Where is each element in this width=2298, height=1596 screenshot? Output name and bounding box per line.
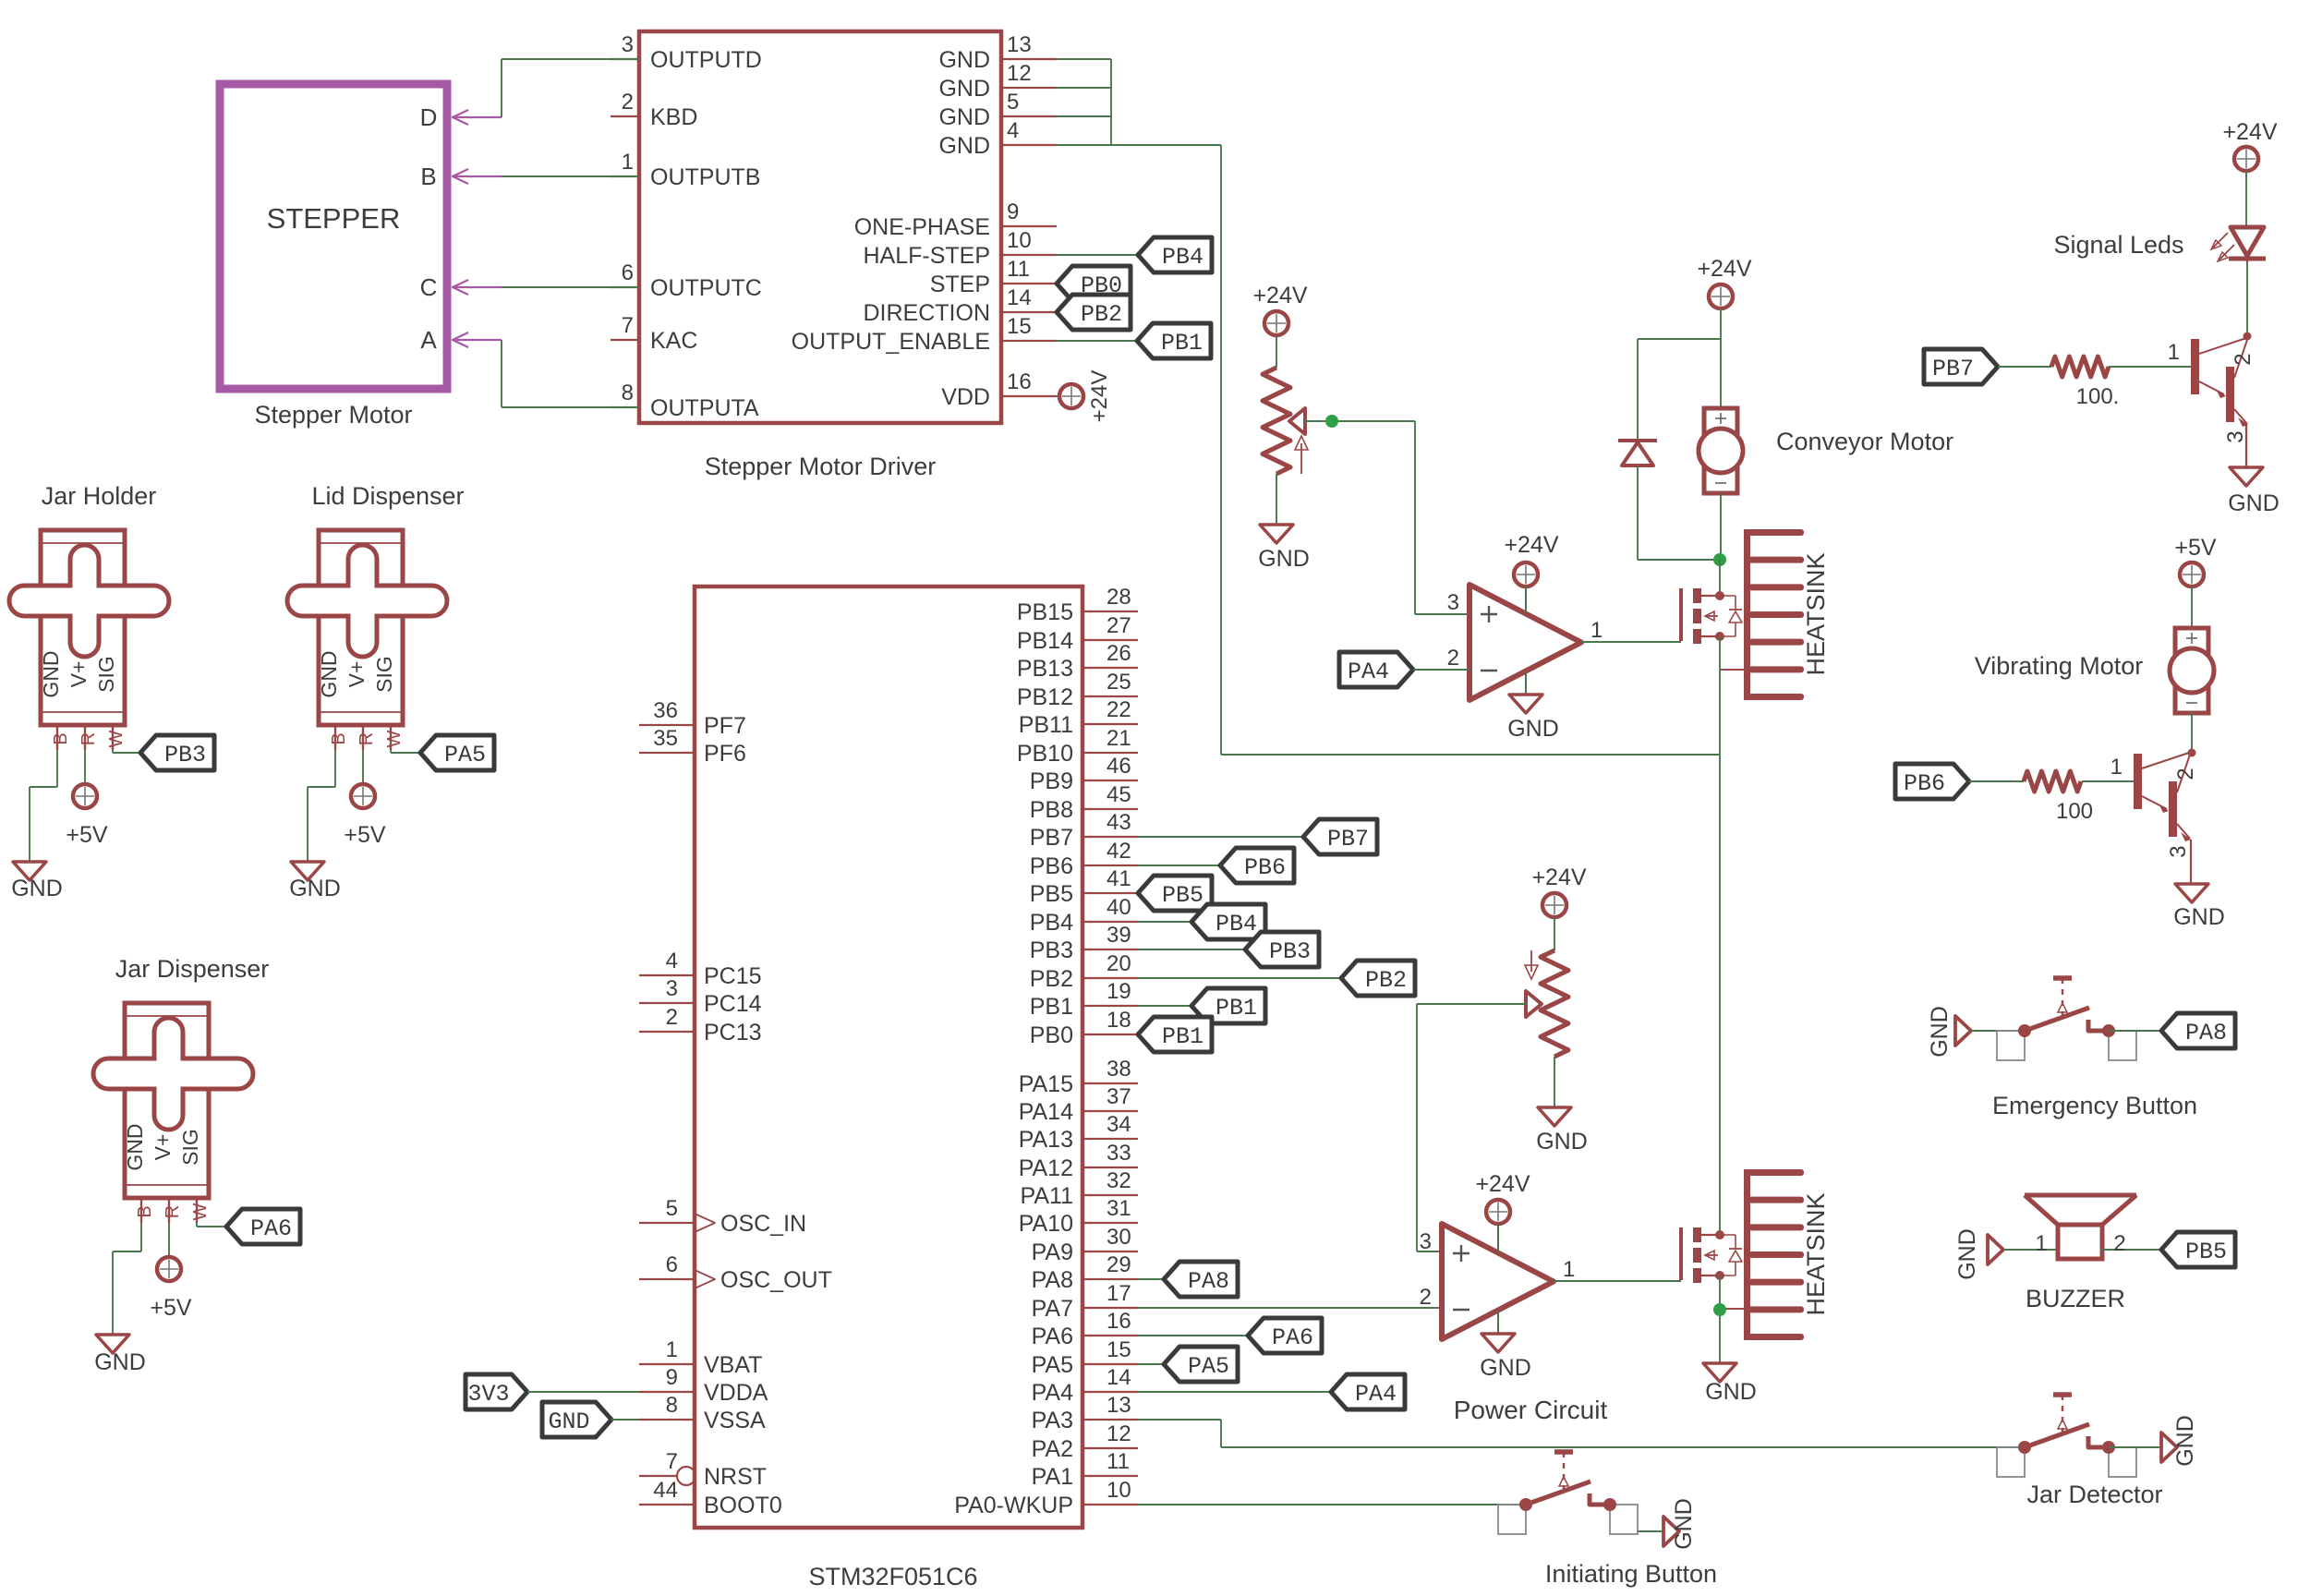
svg-text:12: 12	[1007, 61, 1032, 86]
svg-text:PB9: PB9	[1030, 768, 1073, 794]
svg-text:+5V: +5V	[66, 822, 108, 848]
svg-text:PB14: PB14	[1017, 628, 1073, 654]
svg-text:27: 27	[1107, 613, 1131, 638]
svg-text:PA4: PA4	[1032, 1380, 1073, 1406]
svg-text:+24V: +24V	[1531, 864, 1586, 890]
svg-text:PB0: PB0	[1030, 1022, 1073, 1048]
svg-text:PA6: PA6	[250, 1215, 292, 1242]
svg-text:PF6: PF6	[704, 741, 746, 767]
svg-text:16: 16	[1107, 1309, 1131, 1334]
svg-text:5: 5	[666, 1196, 678, 1221]
svg-text:42: 42	[1107, 839, 1131, 864]
svg-text:GND: GND	[2173, 904, 2225, 930]
svg-text:PA14: PA14	[1019, 1099, 1073, 1125]
svg-text:PA12: PA12	[1019, 1155, 1073, 1181]
svg-text:PB15: PB15	[1017, 599, 1073, 625]
svg-text:PB4: PB4	[1162, 244, 1203, 271]
svg-text:46: 46	[1107, 754, 1131, 779]
svg-text:PA7: PA7	[1032, 1296, 1073, 1322]
svg-text:B: B	[51, 732, 71, 744]
svg-text:38: 38	[1107, 1057, 1131, 1082]
svg-text:+24V: +24V	[1504, 532, 1558, 558]
svg-text:R: R	[357, 732, 377, 745]
svg-text:2: 2	[2173, 768, 2198, 780]
svg-text:PA4: PA4	[1348, 659, 1389, 685]
svg-text:PA8: PA8	[2185, 1020, 2227, 1046]
svg-text:PB6: PB6	[1030, 853, 1073, 879]
svg-text:Initiating Button: Initiating Button	[1545, 1560, 1717, 1588]
svg-text:PA8: PA8	[1188, 1268, 1229, 1295]
svg-text:PA5: PA5	[1188, 1353, 1229, 1380]
svg-text:+24V: +24V	[2222, 119, 2277, 145]
svg-text:GND: GND	[289, 876, 341, 901]
svg-text:PA0-WKUP: PA0-WKUP	[954, 1493, 1073, 1518]
svg-text:A: A	[420, 326, 437, 354]
svg-text:PA15: PA15	[1019, 1071, 1073, 1097]
svg-text:PA2: PA2	[1032, 1436, 1073, 1462]
svg-text:4: 4	[1007, 118, 1019, 143]
svg-text:2: 2	[1447, 646, 1459, 671]
svg-text:15: 15	[1007, 314, 1032, 339]
svg-text:1: 1	[2035, 1231, 2047, 1256]
svg-text:PB2: PB2	[1030, 966, 1073, 992]
svg-text:PB4: PB4	[1216, 911, 1257, 937]
svg-text:6: 6	[622, 260, 634, 285]
svg-text:PB11: PB11	[1019, 712, 1073, 738]
svg-text:3: 3	[2166, 845, 2191, 857]
svg-text:GND: GND	[123, 1123, 147, 1170]
svg-text:GND: GND	[94, 1349, 146, 1375]
svg-text:PA9: PA9	[1032, 1239, 1073, 1265]
svg-text:13: 13	[1007, 32, 1032, 57]
svg-text:OUTPUT_ENABLE: OUTPUT_ENABLE	[792, 329, 990, 355]
svg-text:PA4: PA4	[1355, 1381, 1397, 1408]
svg-text:R: R	[79, 732, 99, 745]
svg-text:1: 1	[2168, 340, 2180, 365]
svg-text:15: 15	[1107, 1337, 1131, 1362]
svg-text:D: D	[420, 103, 438, 131]
svg-text:B: B	[135, 1205, 155, 1217]
svg-text:PB3: PB3	[1269, 938, 1311, 965]
svg-text:GND: GND	[938, 76, 990, 102]
svg-text:STEP: STEP	[930, 272, 990, 297]
svg-text:22: 22	[1107, 697, 1131, 722]
svg-text:+5V: +5V	[344, 822, 386, 848]
svg-text:OSC_OUT: OSC_OUT	[720, 1267, 832, 1293]
svg-text:OUTPUTD: OUTPUTD	[650, 47, 762, 73]
svg-text:PB6: PB6	[1904, 770, 1945, 797]
svg-text:BOOT0: BOOT0	[704, 1493, 782, 1518]
svg-text:C: C	[420, 273, 438, 301]
svg-text:2: 2	[622, 90, 634, 115]
svg-text:17: 17	[1107, 1281, 1131, 1306]
svg-text:33: 33	[1107, 1141, 1131, 1166]
svg-text:NRST: NRST	[704, 1464, 767, 1490]
svg-text:44: 44	[653, 1478, 678, 1503]
svg-text:VDD: VDD	[941, 384, 990, 410]
svg-text:GND: GND	[938, 47, 990, 73]
svg-text:GND: GND	[2228, 490, 2280, 516]
svg-text:7: 7	[622, 313, 634, 338]
svg-text:Power Circuit: Power Circuit	[1454, 1396, 1608, 1424]
svg-text:SIG: SIG	[94, 656, 118, 693]
svg-text:GND: GND	[1536, 1129, 1588, 1155]
svg-text:W: W	[190, 1203, 211, 1220]
svg-text:OUTPUTA: OUTPUTA	[650, 395, 759, 421]
svg-text:30: 30	[1107, 1225, 1131, 1250]
svg-text:PB2: PB2	[1365, 967, 1407, 994]
svg-text:PA3: PA3	[1032, 1408, 1073, 1433]
svg-text:GND: GND	[938, 133, 990, 159]
svg-text:37: 37	[1107, 1084, 1131, 1109]
svg-text:GND: GND	[39, 650, 63, 697]
svg-text:PA11: PA11	[1021, 1183, 1073, 1209]
svg-text:Signal Leds: Signal Leds	[2053, 231, 2183, 259]
svg-text:OUTPUTB: OUTPUTB	[650, 164, 760, 190]
svg-text:PA5: PA5	[444, 742, 486, 768]
svg-text:SIG: SIG	[178, 1129, 202, 1166]
svg-text:VBAT: VBAT	[704, 1352, 762, 1378]
svg-text:16: 16	[1007, 369, 1032, 394]
svg-text:PA6: PA6	[1032, 1324, 1073, 1349]
svg-text:28: 28	[1107, 585, 1131, 610]
svg-text:ONE-PHASE: ONE-PHASE	[854, 214, 990, 240]
svg-text:11: 11	[1107, 1449, 1130, 1474]
svg-text:+5V: +5V	[150, 1295, 192, 1321]
svg-text:GND: GND	[1954, 1228, 1980, 1280]
svg-text:1: 1	[2111, 755, 2123, 780]
svg-text:BUZZER: BUZZER	[2026, 1285, 2125, 1312]
svg-text:18: 18	[1107, 1008, 1131, 1033]
svg-text:10: 10	[1107, 1478, 1131, 1503]
svg-text:V+: V+	[151, 1134, 175, 1161]
svg-text:2: 2	[2113, 1231, 2125, 1256]
svg-text:PB7: PB7	[1932, 356, 1974, 382]
svg-text:Jar Holder: Jar Holder	[42, 482, 157, 510]
svg-text:PB12: PB12	[1017, 684, 1073, 710]
svg-text:HALF-STEP: HALF-STEP	[863, 243, 990, 269]
svg-text:+24V: +24V	[1475, 1171, 1530, 1197]
svg-text:+5V: +5V	[2174, 535, 2217, 561]
svg-text:PA8: PA8	[1032, 1267, 1073, 1293]
svg-text:26: 26	[1107, 641, 1131, 666]
svg-text:GND: GND	[317, 650, 341, 697]
svg-text:PB1: PB1	[1030, 994, 1073, 1020]
svg-text:PC15: PC15	[704, 963, 762, 989]
svg-text:Stepper Motor: Stepper Motor	[254, 401, 412, 429]
svg-text:PA6: PA6	[1272, 1324, 1313, 1351]
svg-text:3: 3	[622, 32, 634, 57]
svg-text:PB10: PB10	[1017, 741, 1073, 767]
svg-text:3V3: 3V3	[467, 1381, 509, 1408]
svg-text:STEPPER: STEPPER	[267, 202, 401, 235]
svg-text:Conveyor Motor: Conveyor Motor	[1776, 428, 1953, 455]
svg-text:GND: GND	[938, 104, 990, 130]
svg-text:31: 31	[1107, 1196, 1131, 1221]
svg-text:GND: GND	[1705, 1379, 1757, 1405]
svg-text:DIRECTION: DIRECTION	[864, 300, 991, 326]
svg-text:GND: GND	[1507, 716, 1559, 742]
svg-text:+24V: +24V	[1252, 283, 1307, 308]
svg-text:45: 45	[1107, 782, 1131, 807]
svg-text:PC13: PC13	[704, 1020, 762, 1046]
svg-text:100: 100	[2056, 799, 2093, 824]
svg-text:GND: GND	[11, 876, 63, 901]
svg-text:PB5: PB5	[2185, 1239, 2227, 1265]
svg-text:GND: GND	[1258, 546, 1310, 572]
svg-text:3: 3	[1420, 1229, 1432, 1254]
svg-text:GND: GND	[1927, 1006, 1953, 1058]
svg-text:VDDA: VDDA	[704, 1380, 768, 1406]
svg-text:7: 7	[666, 1449, 678, 1474]
svg-text:100.: 100.	[2076, 384, 2120, 409]
svg-text:40: 40	[1107, 895, 1131, 920]
svg-text:9: 9	[666, 1365, 678, 1390]
svg-text:SIG: SIG	[372, 656, 396, 693]
svg-text:GND: GND	[2172, 1415, 2198, 1467]
svg-text:PB2: PB2	[1081, 301, 1122, 328]
svg-text:1: 1	[622, 150, 634, 175]
svg-text:4: 4	[666, 949, 678, 973]
svg-text:W: W	[384, 730, 405, 747]
svg-text:1: 1	[1590, 618, 1603, 643]
svg-text:14: 14	[1107, 1365, 1131, 1390]
svg-text:20: 20	[1107, 951, 1131, 976]
svg-text:PB6: PB6	[1244, 854, 1286, 881]
svg-text:Vibrating Motor: Vibrating Motor	[1975, 652, 2144, 680]
svg-text:HEATSINK: HEATSINK	[1802, 1192, 1830, 1315]
svg-text:32: 32	[1107, 1168, 1131, 1193]
svg-text:OSC_IN: OSC_IN	[720, 1211, 806, 1237]
svg-text:21: 21	[1107, 726, 1131, 751]
svg-text:PB13: PB13	[1017, 656, 1073, 682]
svg-text:Stepper Motor Driver: Stepper Motor Driver	[705, 453, 937, 480]
svg-text:GND: GND	[1480, 1355, 1531, 1381]
svg-text:PB4: PB4	[1030, 910, 1073, 936]
svg-text:36: 36	[653, 698, 678, 723]
svg-text:10: 10	[1007, 228, 1032, 253]
svg-text:KBD: KBD	[650, 104, 697, 130]
svg-text:12: 12	[1107, 1421, 1131, 1446]
svg-text:PB5: PB5	[1162, 882, 1203, 909]
svg-text:B: B	[420, 163, 436, 190]
svg-text:PF7: PF7	[704, 713, 746, 739]
svg-text:Jar Dispenser: Jar Dispenser	[115, 955, 270, 983]
svg-text:8: 8	[666, 1393, 678, 1418]
svg-text:PA1: PA1	[1032, 1464, 1073, 1490]
svg-text:PB1: PB1	[1216, 995, 1257, 1022]
svg-text:5: 5	[1007, 90, 1019, 115]
svg-text:OUTPUTC: OUTPUTC	[650, 275, 762, 301]
svg-text:PC14: PC14	[704, 991, 762, 1017]
svg-text:39: 39	[1107, 923, 1131, 948]
svg-text:1: 1	[666, 1337, 678, 1362]
svg-text:PB7: PB7	[1327, 826, 1369, 852]
svg-text:8: 8	[622, 381, 634, 405]
svg-text:PA5: PA5	[1032, 1352, 1073, 1378]
svg-text:11: 11	[1007, 257, 1030, 282]
svg-text:PB3: PB3	[1030, 937, 1073, 963]
svg-text:W: W	[106, 730, 127, 747]
svg-text:PB3: PB3	[164, 742, 206, 768]
svg-text:R: R	[163, 1205, 183, 1218]
svg-text:V+: V+	[67, 661, 91, 688]
svg-text:Jar Detector: Jar Detector	[2026, 1481, 2162, 1508]
svg-text:13: 13	[1107, 1393, 1131, 1418]
svg-text:B: B	[329, 732, 349, 744]
svg-text:PA13: PA13	[1019, 1127, 1073, 1153]
svg-text:43: 43	[1107, 810, 1131, 835]
svg-text:2: 2	[1420, 1285, 1432, 1310]
svg-text:+24V: +24V	[1697, 256, 1751, 282]
svg-text:PB1: PB1	[1162, 1023, 1203, 1050]
svg-text:PB8: PB8	[1030, 797, 1073, 823]
svg-text:3: 3	[1447, 590, 1459, 615]
svg-text:2: 2	[2231, 353, 2256, 365]
svg-text:PB1: PB1	[1161, 330, 1203, 357]
svg-text:GND: GND	[548, 1409, 589, 1435]
svg-text:3: 3	[2223, 430, 2248, 442]
svg-text:29: 29	[1107, 1252, 1131, 1277]
svg-text:PB5: PB5	[1030, 881, 1073, 907]
svg-text:STM32F051C6: STM32F051C6	[808, 1563, 977, 1590]
svg-text:V+: V+	[345, 661, 369, 688]
svg-text:2: 2	[666, 1005, 678, 1030]
svg-text:9: 9	[1007, 199, 1019, 224]
svg-text:14: 14	[1007, 285, 1032, 310]
svg-text:1: 1	[1563, 1257, 1575, 1282]
svg-text:Emergency Button: Emergency Button	[1992, 1092, 2197, 1119]
svg-text:35: 35	[653, 726, 678, 751]
svg-text:25: 25	[1107, 670, 1131, 695]
svg-text:+24V: +24V	[1087, 370, 1112, 423]
svg-text:3: 3	[666, 976, 678, 1001]
svg-text:Lid Dispenser: Lid Dispenser	[311, 482, 464, 510]
svg-text:41: 41	[1107, 866, 1131, 891]
svg-text:GND: GND	[1671, 1498, 1697, 1550]
svg-text:19: 19	[1107, 979, 1131, 1004]
svg-text:6: 6	[666, 1252, 678, 1277]
svg-text:HEATSINK: HEATSINK	[1802, 552, 1830, 675]
svg-text:34: 34	[1107, 1112, 1131, 1137]
svg-text:KAC: KAC	[650, 328, 697, 354]
svg-text:VSSA: VSSA	[704, 1408, 766, 1433]
svg-text:PA10: PA10	[1019, 1211, 1073, 1237]
svg-text:PB7: PB7	[1030, 825, 1073, 851]
